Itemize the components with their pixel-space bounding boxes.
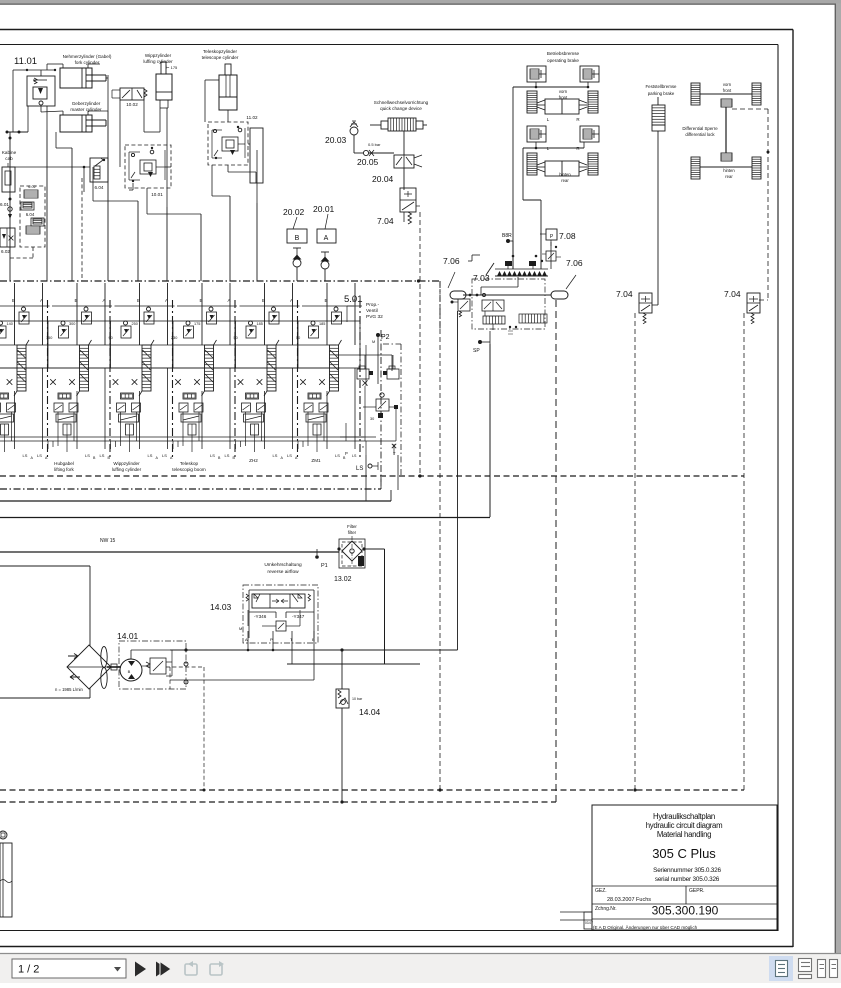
wire 11.01 to cylinders [13, 64, 108, 132]
svg-text:serial number 305.0.326: serial number 305.0.326 [655, 876, 720, 883]
PVG32 end section relief [380, 393, 384, 397]
valve section 2 proportional spool [77, 340, 92, 396]
quick change device cylinder [370, 118, 427, 155]
svg-text:telescopig boom: telescopig boom [172, 467, 206, 472]
svg-text:quick change device: quick change device [380, 106, 422, 111]
svg-text:operating brake: operating brake [547, 58, 579, 63]
front right brake cylinder [580, 66, 599, 82]
valve section 3 compensator cluster [117, 393, 141, 435]
valve section 6 check marks [300, 379, 325, 385]
valve section 5 body [236, 321, 298, 368]
svg-text:1 / 2: 1 / 2 [18, 964, 39, 976]
svg-text:7.04: 7.04 [377, 216, 394, 226]
svg-text:6.04: 6.04 [26, 212, 35, 217]
svg-text:ZM1: ZM1 [311, 458, 321, 463]
load holding valve block 11.02 (dashed) [208, 122, 248, 165]
coupling below B [293, 248, 302, 281]
svg-text:14.03: 14.03 [210, 602, 232, 612]
svg-text:LS: LS [37, 453, 42, 458]
valve section 4 body [173, 321, 235, 368]
valve section 5 proportional spool [264, 340, 279, 396]
svg-text:Geberzylinder: Geberzylinder [72, 101, 101, 106]
svg-text:305 C Plus: 305 C Plus [652, 846, 716, 861]
valve section 1 compensator cluster [0, 393, 16, 435]
svg-text:P: P [345, 451, 348, 456]
wire coupling feed line [403, 212, 405, 222]
section divider 2 (dash-dot) [109, 300, 111, 460]
svg-text:rear: rear [725, 174, 733, 179]
parking brake valve 7.04 right [747, 293, 760, 324]
PVG32 end section dash-dot sub-border [383, 343, 401, 345]
svg-text:rear: rear [561, 178, 569, 183]
wire rear brake line [523, 142, 584, 269]
svg-text:LS: LS [162, 453, 167, 458]
svg-text:hydraulic circuit diagram: hydraulic circuit diagram [646, 821, 723, 830]
valve section 4 compensator cluster [179, 393, 203, 435]
svg-text:20.05: 20.05 [357, 157, 379, 167]
valve section 1 LS labels [0, 453, 34, 460]
svg-text:⊢ 175: ⊢ 175 [166, 65, 178, 70]
page top edge line [0, 4, 841, 5]
front differential [721, 99, 732, 107]
svg-text:6.02: 6.02 [1, 249, 10, 254]
valve section 5 (ZH2) ports [240, 283, 300, 345]
svg-text:Nehmerzylinder (Gabel): Nehmerzylinder (Gabel) [63, 54, 112, 59]
valve section 2 body [48, 321, 110, 368]
svg-text:parking brake: parking brake [648, 91, 675, 96]
level gauge 6.04 upper [90, 158, 108, 182]
wire dashed cab lines [10, 178, 82, 281]
svg-text:GEZ.: GEZ. [595, 888, 607, 894]
svg-text:0.5 bar: 0.5 bar [368, 142, 381, 147]
PVG32 end section P2 port [376, 333, 380, 337]
title block frame [592, 805, 777, 930]
section divider 5 (dash-dot) [297, 300, 299, 460]
svg-text:n = 1985 L/min: n = 1985 L/min [55, 687, 83, 692]
svg-text:Hubgabel: Hubgabel [54, 461, 74, 466]
svg-text:hinten: hinten [559, 172, 571, 177]
svg-text:-Y346: -Y346 [254, 614, 267, 619]
svg-text:11.02: 11.02 [246, 115, 258, 120]
fan shaft [107, 664, 121, 670]
svg-text:20.04: 20.04 [372, 174, 394, 184]
svg-text:GEPR.: GEPR. [689, 888, 705, 894]
svg-text:cab: cab [5, 156, 13, 161]
valve section 4 (Teleskop) ports [177, 283, 237, 345]
wire master cylinder down-staircase [93, 94, 167, 281]
svg-text:M: M [372, 340, 375, 344]
dashed vertical x635 [633, 313, 636, 792]
cylinder: master cylinder [60, 111, 106, 132]
valve section 2 LS labels [37, 453, 96, 460]
svg-text:20.01: 20.01 [313, 204, 335, 214]
front left brake cylinder [527, 66, 546, 82]
svg-text:(E A D Original. Änderunge: (E A D Original. Änderungen nur über CAD… [593, 924, 698, 930]
svg-text:30: 30 [370, 417, 374, 421]
svg-text:luffing cylinder: luffing cylinder [143, 59, 173, 64]
valve section 6 proportional spool [327, 340, 342, 396]
section divider 3 (dash-dot) [172, 300, 174, 460]
section divider 4 (dash-dot) [234, 300, 236, 460]
valve section 6 body [298, 321, 360, 368]
valve section 3 relief valves [109, 307, 155, 340]
svg-text:*: * [362, 446, 364, 452]
svg-text:B8R: B8R [502, 233, 512, 239]
svg-text:Wippzylinder: Wippzylinder [113, 461, 140, 466]
breather 20.03 [350, 121, 358, 153]
svg-text:LS: LS [287, 453, 292, 458]
fan blades [101, 647, 107, 689]
valve 10.02 directional valve [112, 88, 147, 100]
section divider 6 (dash-dot) [359, 300, 361, 460]
rear axle wheels left [527, 153, 598, 176]
svg-text:LS: LS [225, 453, 230, 458]
svg-text:6.02: 6.02 [28, 185, 35, 189]
svg-text:Kabine: Kabine [2, 150, 17, 155]
svg-text:Schnellwechselvorrichtung: Schnellwechselvorrichtung [374, 100, 429, 105]
svg-text:Ventil: Ventil [366, 308, 378, 314]
accumulator 6.02 stack (dashed box) [20, 185, 45, 247]
svg-text:6.01: 6.01 [0, 202, 9, 207]
return filter 13.02 [337, 536, 365, 568]
valve section 1 check marks [0, 379, 12, 385]
valve 6.02 lower-left box [0, 228, 15, 247]
PVG32 end section top rail [336, 354, 392, 356]
svg-text:10 bar: 10 bar [352, 697, 363, 701]
valve section 4 relief valves [171, 307, 217, 340]
front axle wheels left [527, 91, 598, 114]
svg-text:Material handling: Material handling [657, 830, 711, 839]
page right edge line [835, 4, 836, 953]
valve section 5 compensator cluster [242, 393, 266, 435]
next view button (disabled) [210, 961, 224, 975]
PVG32 end section lower wires [364, 386, 366, 441]
svg-text:hinten: hinten [723, 168, 735, 173]
motor ports [131, 648, 188, 684]
rear differential [721, 153, 732, 161]
wire telescope/11.02 connections [205, 80, 257, 281]
valve section 5 lower wires [236, 368, 293, 452]
air flow arrows [68, 654, 80, 680]
brake valve internals [451, 277, 552, 334]
breather bottom-left [0, 831, 12, 917]
title block dividers [592, 886, 777, 919]
svg-text:03.07: 03.07 [585, 921, 593, 925]
svg-text:P2: P2 [381, 334, 390, 341]
svg-text:filter: filter [348, 530, 357, 535]
PVG32 dash-dot border top [0, 280, 440, 282]
dashed vertical x744 [743, 313, 745, 790]
svg-text:7.03: 7.03 [473, 273, 490, 283]
cylinder: telescope cylinder (vertical) [219, 64, 237, 110]
PVG32 dash-dot border bottom [0, 488, 381, 490]
dashed vertical from 7.04 top [418, 212, 421, 478]
dashed horizontal y477 [0, 475, 744, 477]
page number combobox [12, 959, 126, 978]
pressure switch 7.08 [540, 229, 557, 246]
valve section 6 compensator cluster [304, 393, 328, 435]
svg-text:B: B [295, 235, 300, 242]
reversing valve 14.03 dash-dot box [243, 585, 318, 643]
valve section 1 lower wires [0, 368, 43, 452]
svg-text:7.04: 7.04 [724, 289, 741, 299]
wire P line filter to block [287, 549, 420, 664]
wire front brake line [513, 82, 589, 269]
svg-text:A: A [324, 235, 329, 242]
svg-text:20.03: 20.03 [325, 135, 347, 145]
wire solid x457 vertical [170, 311, 458, 650]
svg-text:LS: LS [356, 466, 363, 472]
svg-text:230: 230 [171, 336, 177, 340]
dashed vertical x440 [417, 279, 442, 791]
svg-text:A: A [245, 637, 248, 642]
valve section 3 (Wippzylinder) ports [115, 283, 175, 345]
check valve 20.05 [354, 150, 394, 156]
cylinder: luffing cylinder (vertical) [156, 62, 172, 108]
valve section 6 (ZM1) ports [302, 283, 362, 345]
svg-text:Seriennummer 305.0.326: Seriennummer 305.0.326 [653, 867, 721, 874]
facing pages layout button [818, 960, 838, 978]
rectangle block right of 11.02 [250, 128, 263, 183]
pilot valve 7.04 top [400, 188, 420, 224]
svg-text:Teleskopzylinder: Teleskopzylinder [203, 49, 237, 54]
small valve cluster below 7.08 [541, 246, 561, 262]
wire 10.01 connections [129, 167, 201, 281]
rear axle wheels right [691, 157, 761, 179]
rear left brake cylinder [527, 126, 546, 142]
brake valve assembly 11.01 [26, 69, 56, 106]
svg-text:305.300.190: 305.300.190 [652, 904, 719, 918]
motor relief valve [142, 650, 172, 676]
front axle wheels right [691, 83, 761, 105]
accumulator 7.06 right [551, 275, 576, 299]
valve section 3 check marks [113, 379, 138, 385]
wire left supply verticals [6, 106, 91, 281]
svg-text:-Y347: -Y347 [292, 614, 305, 619]
svg-text:LS: LS [100, 453, 105, 458]
valve section 2 relief valves [46, 307, 92, 340]
svg-text:vorn: vorn [559, 89, 568, 94]
valve section 2 compensator cluster [54, 393, 78, 435]
svg-text:Differential Sperre: Differential Sperre [682, 126, 718, 131]
svg-text:LS: LS [335, 453, 340, 458]
svg-text:Prop.-: Prop.- [366, 302, 379, 308]
dashed horizontal y790 [0, 789, 744, 792]
check valve 14.04 [336, 648, 363, 802]
valve section 1 (section) ports [0, 283, 50, 345]
PVG32 dash-dot border right step [439, 281, 441, 330]
motor case drain dashed [166, 667, 204, 790]
port box B 20.02 [287, 217, 307, 243]
dashed vertical x381 stub [380, 477, 382, 489]
valve section 5 relief valves [234, 307, 280, 340]
svg-text:14.01: 14.01 [117, 631, 139, 641]
valve section 6 lower wires [298, 368, 355, 452]
wire LS line left [366, 455, 398, 501]
cab tilt cylinder [2, 163, 15, 192]
reversing valve pilot [239, 610, 300, 631]
svg-text:6.04: 6.04 [95, 185, 104, 190]
toolbar top border [0, 953, 841, 955]
svg-text:SP: SP [473, 348, 480, 354]
port SP [478, 331, 490, 344]
reversing valve 14.03 [246, 590, 314, 638]
valve section 1 body [0, 321, 48, 368]
svg-text:Feststellbremse: Feststellbremse [646, 84, 678, 89]
svg-text:14.04: 14.04 [359, 707, 381, 717]
svg-text:Zchng.Nr.: Zchng.Nr. [595, 906, 617, 912]
accumulator 7.06 left [448, 272, 466, 299]
valve section 3 LS labels [100, 453, 159, 460]
cylinder: fork cylinder [60, 64, 106, 88]
drive shaft [725, 107, 727, 153]
last page button [156, 962, 171, 977]
svg-text:185: 185 [257, 322, 263, 326]
svg-text:150: 150 [46, 336, 52, 340]
wire SP long line [0, 344, 490, 518]
svg-text:vorn: vorn [723, 82, 732, 87]
wire tank return T [0, 490, 391, 501]
fan motor 14.01 [120, 659, 142, 681]
toolbar background [0, 953, 841, 983]
brake valve block dash-dot box [472, 279, 545, 329]
svg-text:lifting fork: lifting fork [54, 467, 74, 472]
svg-text:ZH2: ZH2 [249, 458, 258, 463]
cooler diamond [67, 645, 111, 689]
svg-text:LS: LS [23, 453, 28, 458]
valve section 4 LS labels [162, 453, 221, 460]
tank shroud rectangle [0, 566, 90, 698]
svg-text:LS: LS [352, 454, 357, 458]
svg-text:20.02: 20.02 [283, 207, 305, 217]
svg-text:Teleskop: Teleskop [180, 461, 199, 466]
valve section 4 proportional spool [202, 340, 217, 396]
svg-text:NW 15: NW 15 [100, 538, 116, 544]
svg-text:13.02: 13.02 [334, 576, 352, 583]
port B8R [506, 239, 513, 243]
svg-text:140: 140 [7, 322, 13, 326]
svg-text:Hydraulikschaltplan: Hydraulikschaltplan [653, 812, 715, 821]
frame lines left of title block [560, 912, 592, 920]
port box A 20.01 [317, 214, 336, 243]
brake valve 7.03 manifold [468, 241, 551, 276]
valve section 3 body [111, 321, 173, 368]
svg-text:luffing cylinder: luffing cylinder [112, 467, 142, 472]
svg-text:P: P [270, 637, 273, 642]
valve section 2 (Hubgabel) ports [52, 283, 112, 345]
PVG32 internal rails [0, 306, 396, 441]
svg-text:11.01: 11.01 [14, 56, 37, 67]
valve section 5 check marks [238, 379, 263, 385]
valve section 2 check marks [50, 379, 75, 385]
wire 14.03 ports down [170, 631, 314, 680]
svg-text:B: B [128, 669, 131, 674]
reversing valve port labels [245, 637, 315, 642]
valve section 5 LS labels [225, 453, 284, 460]
next page button [135, 962, 146, 977]
svg-text:M: M [239, 626, 242, 631]
dashed vertical x556 heavy [555, 300, 557, 802]
parking brake cylinder [652, 97, 665, 305]
valve section 6 relief valves [296, 307, 342, 340]
valve section 3 proportional spool [139, 340, 154, 396]
window top gray strip [0, 0, 841, 4]
svg-text:7.04: 7.04 [616, 289, 633, 299]
valve section 3 lower wires [111, 368, 168, 452]
valve section 1 relief valves [0, 307, 29, 338]
fan motor dash-dot box [119, 641, 186, 689]
svg-text:front: front [723, 88, 732, 93]
svg-text:LS: LS [210, 453, 215, 458]
svg-text:7.08: 7.08 [559, 231, 576, 241]
valve section 4 lower wires [173, 368, 230, 452]
svg-text:10.02: 10.02 [126, 102, 138, 107]
load holding valve block 10.01 (dashed) [125, 145, 171, 188]
solenoid valve 20.04 [394, 155, 422, 190]
svg-text:Wippzylinder: Wippzylinder [145, 53, 172, 58]
rear right brake cylinder [580, 126, 599, 142]
window right gray strip [836, 4, 841, 954]
single page layout button (selected) [769, 956, 793, 981]
svg-text:10.01: 10.01 [151, 192, 163, 197]
hand pump 6.01 parts [8, 198, 12, 220]
svg-text:Betriebsbremse: Betriebsbremse [547, 51, 580, 56]
valve section 2 lower wires [48, 368, 105, 452]
PVG32 end section pilot valves [357, 369, 369, 379]
svg-text:LS: LS [273, 453, 278, 458]
svg-text:185: 185 [319, 322, 325, 326]
svg-text:differential lock: differential lock [685, 132, 715, 137]
svg-text:7.06: 7.06 [566, 258, 583, 268]
svg-text:300: 300 [69, 322, 75, 326]
svg-text:telescope cylinder: telescope cylinder [202, 55, 239, 60]
valve section 1 proportional spool [14, 340, 29, 396]
dashed horizontal y802 [0, 800, 556, 803]
valve section 4 check marks [175, 379, 200, 385]
section divider 1 (dash-dot) [47, 300, 49, 460]
svg-text:P1: P1 [321, 563, 328, 569]
svg-text:175: 175 [194, 322, 200, 326]
continuous layout button [799, 959, 812, 979]
svg-text:Filter: Filter [347, 524, 357, 529]
svg-text:7.06: 7.06 [443, 256, 460, 266]
svg-text:28.03.2007 Fuchs: 28.03.2007 Fuchs [607, 897, 651, 903]
valve section 6 LS labels [287, 453, 346, 460]
svg-text:B: B [312, 637, 315, 642]
svg-text:LS: LS [85, 453, 90, 458]
svg-text:Umkehrschaltung: Umkehrschaltung [264, 562, 302, 568]
coupling below A [321, 252, 330, 281]
title block corner box [584, 912, 593, 929]
svg-text:reverse airflow: reverse airflow [267, 569, 299, 575]
svg-text:T: T [393, 451, 396, 456]
svg-text:LS: LS [148, 453, 153, 458]
wire suction NW15 [0, 551, 339, 553]
svg-text:PVG 32: PVG 32 [366, 314, 383, 320]
prev view button (disabled) [185, 961, 197, 975]
svg-text:250: 250 [132, 322, 138, 326]
wire dashed differential lock line [732, 109, 770, 300]
port P1 [315, 549, 319, 559]
parking brake valve 7.04 left [639, 293, 658, 324]
